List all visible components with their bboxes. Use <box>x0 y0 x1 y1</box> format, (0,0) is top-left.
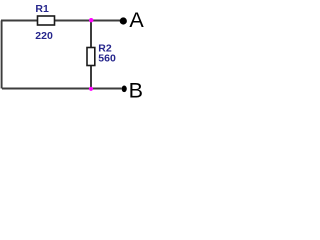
svg-text:A: A <box>129 8 144 32</box>
svg-text:560: 560 <box>98 53 116 65</box>
wire R2 top lead <box>90 21 92 49</box>
wire top-middle (R1 to junction) <box>54 20 91 22</box>
wire top-left (from left rail to R1) <box>1 20 38 22</box>
junction bottom (at R2/bottom rail) <box>89 87 93 91</box>
wire left rail <box>1 21 3 89</box>
svg-text:B: B <box>129 79 143 103</box>
node B terminal dot <box>122 86 127 93</box>
resistor R2 <box>87 48 95 66</box>
svg-text:220: 220 <box>35 30 53 42</box>
svg-text:R1: R1 <box>35 3 49 15</box>
node A terminal dot <box>120 17 127 24</box>
wire R2 bottom lead <box>90 65 92 89</box>
resistor R1 <box>38 16 55 25</box>
wire top-right (junction to node A) <box>91 20 120 22</box>
wire bottom (left rail to node B) <box>2 88 122 90</box>
junction top (at R2/node A wire) <box>89 18 93 22</box>
